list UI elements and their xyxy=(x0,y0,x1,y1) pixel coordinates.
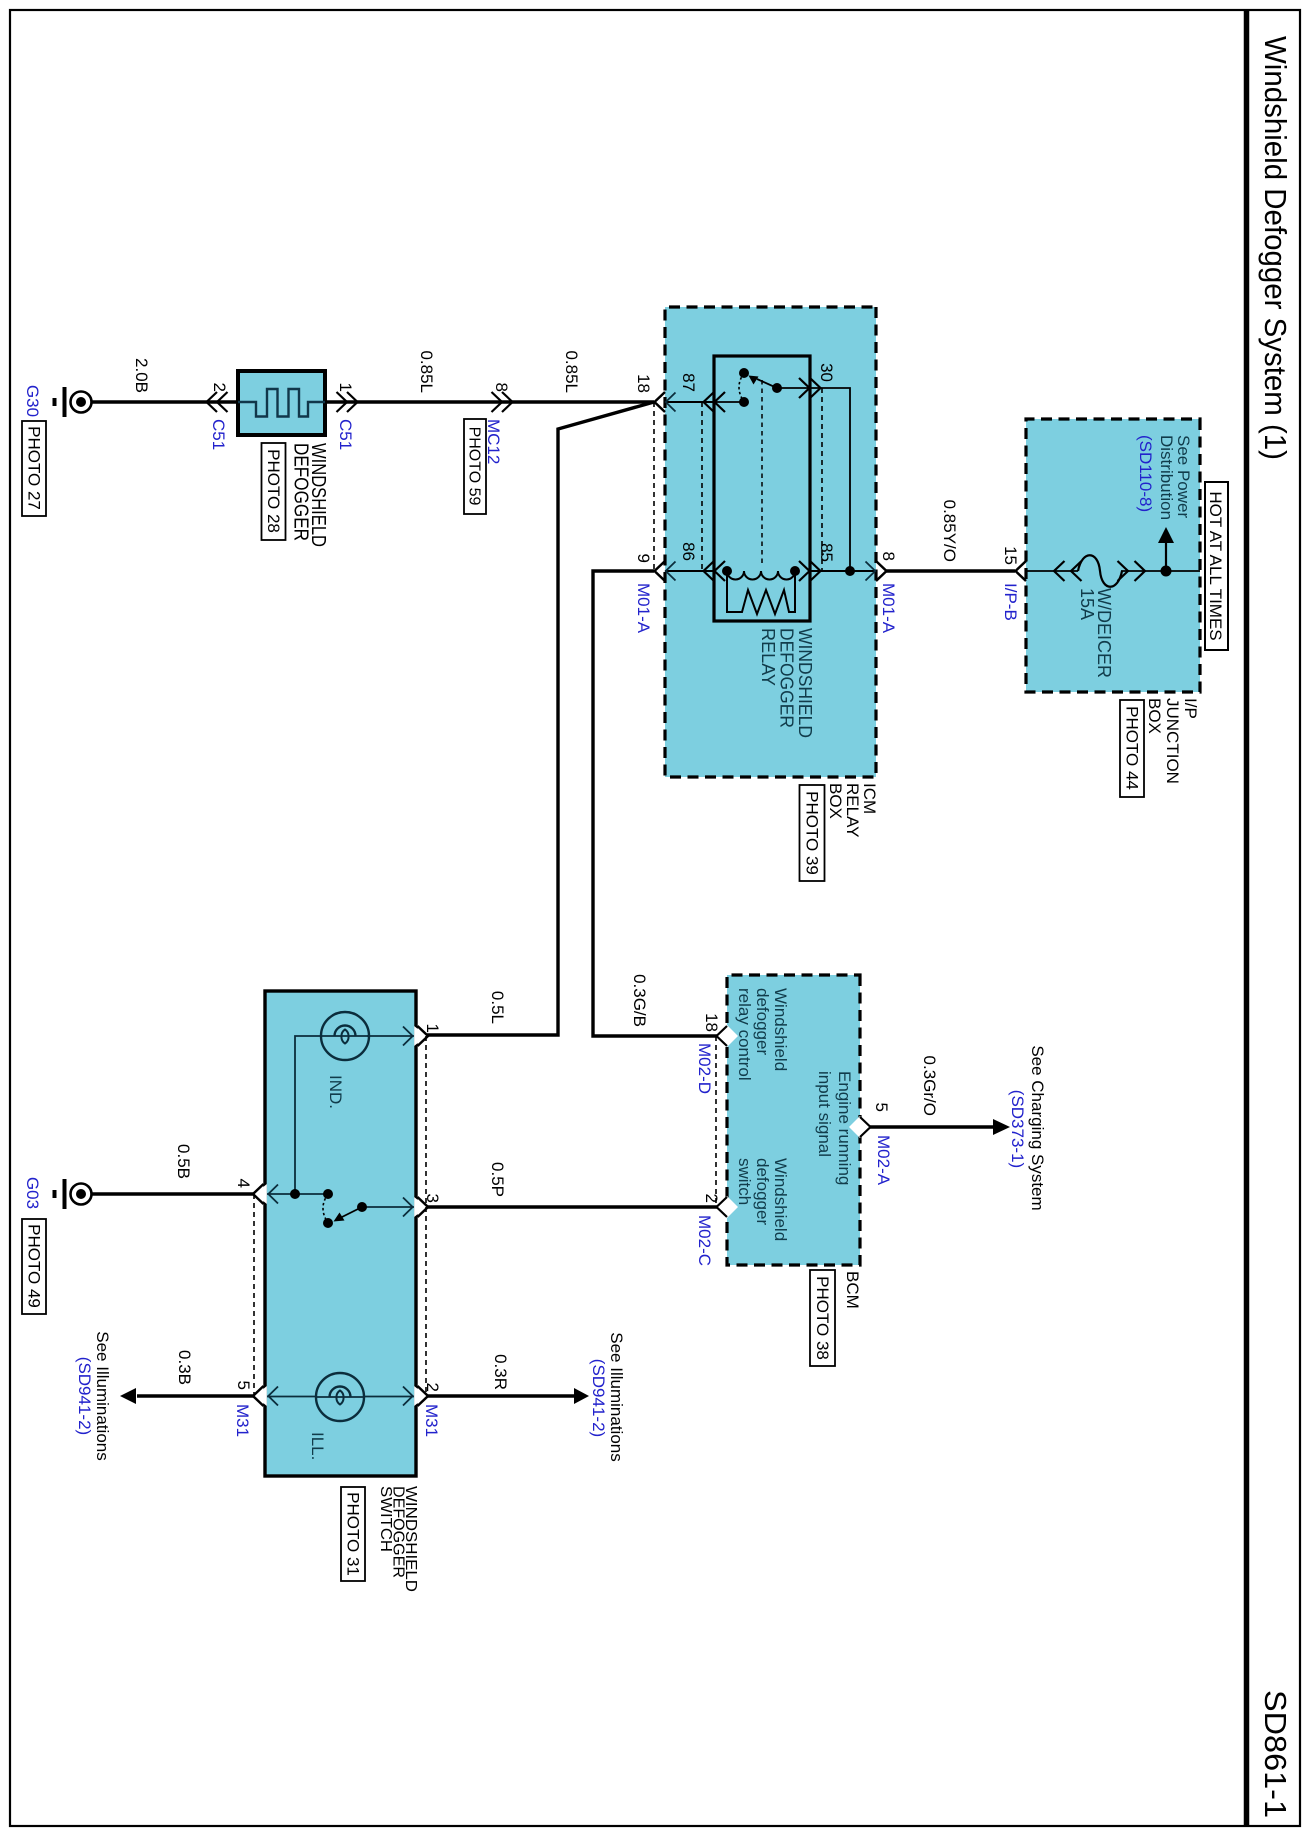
relay mechanical link (dashed) xyxy=(761,380,763,565)
wire 0.3R from switch pin 2 to illumination arrow xyxy=(427,1394,575,1397)
svg-text:(SD941-2): (SD941-2) xyxy=(589,1359,608,1437)
svg-text:2.0B: 2.0B xyxy=(132,358,151,393)
pin 15 (I/P edge, single V down, white notch) xyxy=(1016,561,1027,581)
IND bulb xyxy=(321,1012,369,1060)
wire 0.5P from switch pin 3 to BCM pin 2 xyxy=(427,1205,717,1208)
svg-text:BOX: BOX xyxy=(1145,698,1164,734)
svg-text:M02-C: M02-C xyxy=(695,1215,714,1266)
svg-text:BOX: BOX xyxy=(826,783,845,819)
PHOTO 59 label box xyxy=(464,419,486,514)
BCM pin 18 (bottom edge, single V down) xyxy=(716,1025,738,1047)
svg-text:Distribution: Distribution xyxy=(1157,435,1176,520)
wire 0.3Gr/O from BCM pin 5 to charging system arrow xyxy=(870,1125,993,1128)
svg-text:(SD941-2): (SD941-2) xyxy=(75,1357,94,1435)
connector MC12 pin 8 (inline chevrons pointing up) xyxy=(492,392,513,412)
wire 0.3G/B from ICM pin9 to BCM pin 18 xyxy=(593,571,717,1036)
svg-text:PHOTO 49: PHOTO 49 xyxy=(25,1224,44,1308)
svg-text:DEFOGGER: DEFOGGER xyxy=(290,443,312,541)
svg-text:I/P-B: I/P-B xyxy=(1001,583,1020,621)
svg-text:0.3B: 0.3B xyxy=(175,1350,194,1385)
svg-text:BCM: BCM xyxy=(843,1271,862,1309)
svg-text:0.3G/B: 0.3G/B xyxy=(630,974,649,1027)
svg-text:15A: 15A xyxy=(1077,588,1097,620)
ground G30 xyxy=(55,387,92,417)
svg-text:ILL.: ILL. xyxy=(308,1432,327,1460)
switch travel arc (dotted) xyxy=(323,1194,328,1223)
switch pin 4 (bottom edge, double V down) xyxy=(253,1184,278,1204)
wire 0.3B from switch pin 5 to illumination arrow xyxy=(137,1394,254,1397)
title bar separator xyxy=(1244,10,1250,1826)
defogger switch box xyxy=(265,991,416,1476)
svg-text:Windshield Defogger System (1): Windshield Defogger System (1) xyxy=(1258,36,1293,460)
PHOTO 28 label box xyxy=(262,443,286,540)
I/P junction box (dashed, cyan) xyxy=(1026,419,1200,692)
svg-text:SWITCH: SWITCH xyxy=(377,1486,394,1552)
svg-text:18: 18 xyxy=(634,374,653,393)
inner relay box xyxy=(714,356,810,621)
svg-text:See Illuminations: See Illuminations xyxy=(93,1331,112,1460)
pin30 jumper wire to pin8 wire xyxy=(810,388,850,571)
svg-text:(SD373-1): (SD373-1) xyxy=(1008,1090,1027,1168)
pin 9 (ICM edge, double V down, white notch) xyxy=(655,561,676,581)
relay switch: pin87 contact wire and dot xyxy=(714,401,744,403)
svg-text:DEFOGGER: DEFOGGER xyxy=(777,628,797,728)
svg-text:0.85Y/O: 0.85Y/O xyxy=(940,500,959,562)
svg-text:PHOTO 31: PHOTO 31 xyxy=(344,1492,363,1576)
ILL bulb xyxy=(316,1373,364,1421)
PHOTO 49 label box xyxy=(22,1219,46,1314)
svg-text:defogger: defogger xyxy=(753,1158,772,1225)
svg-text:G30: G30 xyxy=(23,385,42,417)
BCM pin 2 (bottom edge, single V down) xyxy=(716,1196,738,1218)
relay pin 86 (inner box bottom, double V down) xyxy=(704,561,726,581)
svg-text:8: 8 xyxy=(879,552,898,561)
defogger heater element (square wave) xyxy=(238,389,325,417)
switch pin 2 (top edge, double V up) xyxy=(403,1386,428,1406)
svg-text:0.3R: 0.3R xyxy=(491,1354,510,1390)
wire 2.0B / 0.85L main vertical run from ground to ICM relay box xyxy=(92,400,654,403)
relay pin 30 (inner box top, double V up) xyxy=(799,378,821,398)
svg-text:input signal: input signal xyxy=(815,1071,834,1157)
ICM relay box (dashed, cyan) xyxy=(665,307,876,777)
svg-text:M01-A: M01-A xyxy=(879,583,898,634)
BCM box (dashed, cyan) xyxy=(727,975,860,1265)
svg-text:2: 2 xyxy=(702,1194,721,1203)
windshield defogger unit box xyxy=(238,371,325,435)
svg-text:RELAY: RELAY xyxy=(758,628,778,686)
dashed connector pins 1-3-2 xyxy=(425,1036,427,1396)
wire 0.5L from ICM pin18 to defogger switch pin 1 xyxy=(427,402,654,1035)
svg-text:HOT AT ALL TIMES: HOT AT ALL TIMES xyxy=(1206,491,1225,640)
svg-text:0.5L: 0.5L xyxy=(488,991,507,1024)
svg-text:WINDSHIELD: WINDSHIELD xyxy=(795,628,815,738)
svg-text:30: 30 xyxy=(817,363,836,382)
svg-text:Windshield: Windshield xyxy=(771,1158,790,1241)
wire pin18 to inner relay pin 87 xyxy=(665,401,714,403)
svg-text:0.85L: 0.85L xyxy=(562,350,581,393)
pin 18 (ICM edge, double V down, white notch) xyxy=(655,392,676,412)
hot feed arrow (points left from dot) xyxy=(1165,540,1167,571)
PHOTO 31 label box xyxy=(341,1487,365,1581)
svg-text:C51: C51 xyxy=(336,419,355,450)
relay switch pivot wire and dot xyxy=(777,387,810,389)
connector C51 pin 1 (inline chevrons pointing up) xyxy=(337,392,358,412)
svg-text:8: 8 xyxy=(492,383,511,392)
PHOTO 27 label box xyxy=(22,421,46,516)
svg-text:relay control: relay control xyxy=(735,988,754,1081)
svg-text:See Charging System: See Charging System xyxy=(1028,1045,1047,1210)
fuse W/DEICER 15A (S-curve) xyxy=(1078,555,1122,587)
relay parallel resistor xyxy=(727,571,795,614)
wire 0.85Y/O from ICM pin 8 to I/P pin 15 xyxy=(886,569,1015,572)
svg-text:PHOTO 38: PHOTO 38 xyxy=(813,1276,832,1360)
dashed connector line pins 30-85 xyxy=(821,388,823,571)
svg-text:85: 85 xyxy=(817,543,836,562)
PHOTO 39 label box xyxy=(800,785,825,881)
BCM pin 5 (top edge, single V up) xyxy=(849,1116,871,1138)
svg-text:87: 87 xyxy=(679,373,698,392)
svg-text:SD861-1: SD861-1 xyxy=(1258,1690,1293,1818)
IND bulb wire xyxy=(367,1035,414,1037)
PHOTO 38 label box xyxy=(810,1270,835,1366)
svg-text:M01-A: M01-A xyxy=(634,583,653,634)
svg-text:18: 18 xyxy=(702,1013,721,1032)
svg-text:1: 1 xyxy=(423,1024,442,1033)
ILL bulb wires xyxy=(363,1396,414,1398)
PHOTO 44 label box xyxy=(1120,700,1144,797)
fuse wire inside I/P box xyxy=(1026,570,1078,572)
wire pin9 to inner relay pin 86 xyxy=(665,570,714,572)
svg-text:PHOTO 27: PHOTO 27 xyxy=(25,426,44,510)
inner chevrons below fuse (pointing down) xyxy=(1054,561,1082,581)
svg-text:I/P: I/P xyxy=(1181,698,1200,719)
relay switch open contact dot xyxy=(739,368,749,378)
svg-text:M02-A: M02-A xyxy=(874,1135,893,1186)
svg-text:PHOTO 28: PHOTO 28 xyxy=(264,449,283,533)
relay switch arm with arrowhead xyxy=(757,379,777,388)
svg-text:JUNCTION: JUNCTION xyxy=(1163,698,1182,784)
pin 8 (ICM edge, double V up, white notch) xyxy=(866,561,887,581)
svg-text:0.5B: 0.5B xyxy=(174,1144,193,1179)
relay pin 85 (inner box top, double V up) xyxy=(799,561,821,581)
svg-text:2: 2 xyxy=(210,383,229,392)
svg-text:M02-D: M02-D xyxy=(695,1043,714,1094)
svg-text:defogger: defogger xyxy=(753,988,772,1055)
switch pin4 wire with junction to IND xyxy=(267,1193,328,1195)
svg-text:Windshield: Windshield xyxy=(771,988,790,1071)
junction dot near top of I/P box xyxy=(1161,566,1172,577)
ground G03 xyxy=(55,1179,92,1209)
svg-text:M31: M31 xyxy=(233,1404,252,1437)
switch moving contact dot xyxy=(323,1218,333,1228)
switch pin 5 (bottom edge, double V down) xyxy=(253,1386,278,1406)
dashed connector line pins 18-9 xyxy=(653,402,655,571)
svg-text:1: 1 xyxy=(336,383,355,392)
dashed connector pins 4-5 xyxy=(253,1194,255,1396)
relay switch travel arc (dotted) xyxy=(739,373,744,402)
svg-text:See Illuminations: See Illuminations xyxy=(607,1332,626,1461)
HOT AT ALL TIMES label box xyxy=(1205,482,1228,650)
wire 0.5B ground G03 to switch pin 4 xyxy=(92,1192,254,1195)
svg-text:Engine running: Engine running xyxy=(835,1071,854,1185)
svg-text:(SD110-8): (SD110-8) xyxy=(1136,435,1155,512)
svg-text:5: 5 xyxy=(872,1103,891,1112)
relay coil (4 humps on x=571 between y=515..583) xyxy=(727,571,795,580)
svg-text:0.5P: 0.5P xyxy=(488,1162,507,1197)
relay pin 87 (inner box bottom, double V down) xyxy=(704,392,726,412)
svg-text:5: 5 xyxy=(234,1381,253,1390)
switch pivot wire from pin 3 xyxy=(362,1206,414,1208)
svg-text:86: 86 xyxy=(679,542,698,561)
svg-text:IND.: IND. xyxy=(326,1075,345,1109)
svg-text:9: 9 xyxy=(634,554,653,563)
junction node on pin8 wire xyxy=(845,566,855,576)
svg-text:0.85L: 0.85L xyxy=(417,350,436,393)
svg-text:PHOTO 39: PHOTO 39 xyxy=(803,791,822,875)
switch pin 1 (top edge, double V up) xyxy=(403,1026,428,1046)
inner chevrons above fuse (pointing up) xyxy=(1118,561,1146,581)
svg-text:15: 15 xyxy=(1001,546,1020,565)
svg-text:PHOTO 44: PHOTO 44 xyxy=(1123,706,1142,790)
svg-text:G03: G03 xyxy=(23,1177,42,1209)
svg-text:switch: switch xyxy=(735,1158,754,1205)
svg-text:4: 4 xyxy=(234,1179,253,1188)
svg-text:PHOTO 59: PHOTO 59 xyxy=(466,427,483,506)
switch pin 3 (top edge, double V up) xyxy=(403,1197,428,1217)
switch arm with arrowhead xyxy=(342,1207,362,1217)
svg-text:C51: C51 xyxy=(209,419,228,450)
svg-text:0.3Gr/O: 0.3Gr/O xyxy=(920,1056,939,1116)
connector C51 pin 2 (inline chevrons pointing down) xyxy=(207,392,228,412)
dashed connector pins 18-2 xyxy=(715,1036,717,1207)
dashed connector line pins 87-86 xyxy=(701,402,703,571)
svg-text:M31: M31 xyxy=(422,1404,441,1437)
wire pin8 down to inner relay pin 85 xyxy=(810,570,876,572)
